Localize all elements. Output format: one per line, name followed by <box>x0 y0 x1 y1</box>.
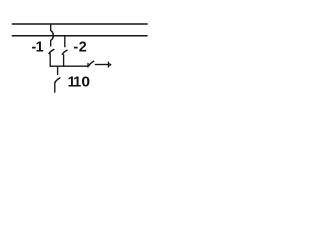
svg-text:0: 0 <box>81 74 90 90</box>
svg-text:1: 1 <box>73 74 81 90</box>
svg-text:2: 2 <box>79 40 87 56</box>
svg-text:-: - <box>73 40 78 56</box>
svg-text:1: 1 <box>36 40 44 56</box>
